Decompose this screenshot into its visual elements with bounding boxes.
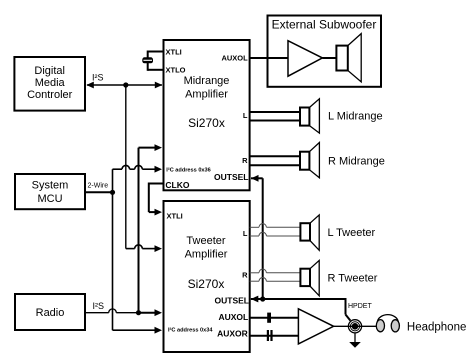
label I2S (Radio) [93, 301, 105, 311]
wire headphone output [334, 323, 377, 330]
label L Midrange [328, 111, 383, 123]
svg-text:L: L [243, 229, 248, 238]
ground [349, 333, 361, 348]
svg-text:Controler: Controler [27, 89, 73, 101]
label Headphone [407, 321, 466, 333]
svg-text:I²C address 0x36: I²C address 0x36 [166, 167, 210, 174]
wire L tweeter output pair with hops [250, 224, 301, 236]
svg-text:Amplifier: Amplifier [185, 248, 228, 260]
node junction DMC I2S bus [123, 82, 128, 87]
wire 2-Wire from MCU [85, 191, 113, 193]
svg-text:Si270x: Si270x [188, 277, 225, 291]
svg-text:I²C address 0x34: I²C address 0x34 [168, 327, 213, 334]
svg-text:I²S: I²S [93, 301, 105, 311]
svg-text:XTLI: XTLI [167, 211, 183, 220]
svg-text:Si270x: Si270x [188, 116, 225, 130]
svg-text:Tweeter: Tweeter [186, 235, 225, 247]
label I2S (DMC) [92, 72, 104, 82]
svg-text:Midrange: Midrange [184, 75, 230, 87]
wire I2S DMC to midrange (bidirectional) [86, 82, 162, 89]
wire DMC I2S to tweeter with hop [126, 245, 162, 252]
label R Tweeter [328, 272, 378, 284]
capacitor C2 (AUXOR) [267, 330, 273, 341]
svg-text:Media: Media [35, 77, 66, 89]
wire L midrange output pair [250, 112, 300, 121]
svg-text:Digital: Digital [34, 65, 65, 77]
svg-text:XTLO: XTLO [166, 66, 186, 75]
svg-text:Headphone: Headphone [407, 321, 466, 333]
wire subwoofer amp to speaker [322, 57, 336, 59]
speaker subwoofer [336, 34, 361, 82]
label 2-Wire [88, 182, 109, 189]
speaker L Tweeter [300, 215, 319, 250]
node junction 2-wire bus [110, 190, 115, 195]
wire AUXOL tweeter [250, 317, 299, 319]
wire AUXOR tweeter [250, 335, 299, 337]
wire I2S Radio to tweeter with hop [85, 309, 162, 316]
label L Tweeter [328, 227, 376, 239]
svg-text:System: System [32, 180, 69, 192]
wire R midrange output pair [250, 156, 300, 165]
node junction OUTSEL [260, 296, 265, 301]
svg-text:R: R [242, 156, 248, 165]
crystal Y1 [142, 51, 163, 71]
wire radio I2S up to midrange [139, 144, 163, 313]
wire AUXOL midrange to subwoofer [250, 57, 288, 59]
speaker R Tweeter [300, 260, 319, 295]
node junction radio I2S [136, 310, 141, 315]
label R Midrange [328, 156, 385, 168]
svg-text:R Midrange: R Midrange [328, 156, 385, 168]
svg-text:L: L [243, 111, 248, 120]
svg-text:L Tweeter: L Tweeter [328, 227, 376, 239]
svg-text:AUXOL: AUXOL [218, 312, 248, 322]
wire R tweeter output pair with hops [250, 269, 301, 281]
svg-text:R: R [242, 270, 248, 279]
wire 2-wire bus up to midrange I2C with hops [113, 165, 163, 193]
block System MCU [15, 174, 85, 209]
capacitor C1 (AUXOL) [267, 313, 271, 323]
wire OUTSEL line to tweeter and HPDET [251, 296, 351, 321]
block External Subwoofer [268, 16, 382, 87]
block Digital Media Controler [14, 57, 85, 111]
svg-text:OUTSEL: OUTSEL [215, 295, 249, 305]
svg-text:2-Wire: 2-Wire [88, 182, 109, 189]
svg-text:MCU: MCU [37, 193, 62, 205]
svg-text:Radio: Radio [36, 307, 65, 319]
speaker L Midrange [300, 99, 319, 133]
svg-text:HPDET: HPDET [348, 303, 372, 310]
IC U2 Tweeter Amplifier Si270x [164, 201, 250, 352]
headphone jack J1 [348, 320, 361, 333]
wire DMC I2S bus vertical [125, 85, 127, 249]
svg-text:AUXOL: AUXOL [221, 53, 248, 62]
op-amp headphone driver [298, 309, 333, 344]
headphone icon [376, 315, 399, 332]
svg-text:External Subwoofer: External Subwoofer [272, 18, 377, 32]
label HPDET [348, 303, 372, 310]
svg-text:OUTSEL: OUTSEL [214, 172, 248, 182]
svg-text:AUXOR: AUXOR [217, 328, 248, 338]
svg-text:L Midrange: L Midrange [328, 111, 383, 123]
svg-text:XTLI: XTLI [166, 48, 182, 57]
wire 2-wire bus down to tweeter I2C [113, 192, 163, 334]
IC U1 Midrange Amplifier Si270x [164, 40, 250, 190]
svg-text:I²S: I²S [92, 72, 104, 82]
svg-text:CLKO: CLKO [165, 180, 189, 190]
svg-text:Amplifier: Amplifier [185, 88, 228, 100]
wire OUTSEL midrange down [251, 175, 263, 299]
block Radio [15, 294, 85, 330]
amplifier subwoofer [288, 41, 322, 76]
speaker R Midrange [300, 143, 319, 178]
svg-text:R Tweeter: R Tweeter [328, 272, 378, 284]
wire CLKO to tweeter XTLI [149, 183, 163, 216]
